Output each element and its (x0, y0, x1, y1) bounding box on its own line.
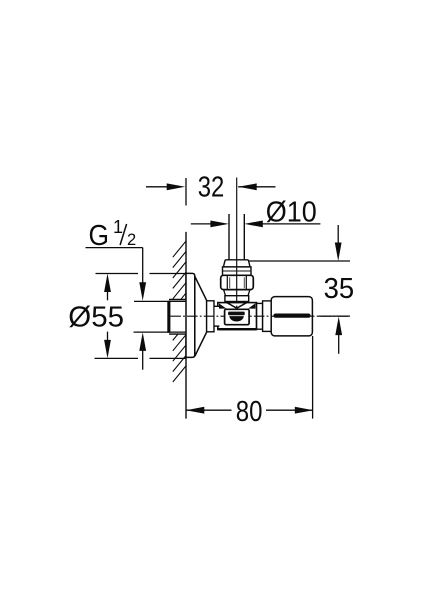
valve body (218, 303, 257, 330)
dim 35: down arrow (337, 225, 339, 244)
funnel V lines (225, 302, 237, 309)
label G 1/2: lower arrow (up) (139, 332, 146, 351)
dim 32: left extension line (185, 178, 187, 206)
dim 80: right extension line (handle edge) (312, 336, 314, 419)
compression nut (221, 275, 254, 289)
svg-text:Ø55: Ø55 (68, 302, 124, 334)
escutcheon cone (195, 276, 207, 356)
GROHE badge (225, 309, 250, 324)
vertical pipe centerline (236, 178, 238, 304)
label G 1/2: upper extension (thread crest line) (134, 300, 186, 302)
dim 35: bottom extension line (319, 315, 351, 317)
svg-text:Ø10: Ø10 (266, 196, 317, 228)
dim O55: bottom arrow (pointing down) (107, 332, 109, 341)
dim O55: top extension line (96, 273, 139, 275)
funnel corner wedge left (219, 303, 226, 308)
label G 1/2: upper arrow (down) (139, 282, 146, 301)
svg-text:32: 32 (198, 171, 225, 203)
svg-text:35: 35 (324, 273, 355, 305)
compression fitting flare (223, 260, 250, 267)
funnel cylinder (225, 296, 249, 302)
svg-text:80: 80 (236, 396, 263, 428)
svg-text:2: 2 (127, 231, 136, 249)
dim 32: left dim line + arrow (146, 186, 174, 188)
taper below nut (224, 290, 226, 296)
handle grip bar (273, 314, 310, 318)
threaded inlet G1/2 (167, 300, 186, 335)
dim 80: dim line + arrows (187, 409, 232, 411)
escutcheon flange plate (O55) (186, 273, 195, 357)
handle knob (271, 297, 312, 336)
dim 32: right dim line + arrow (238, 186, 275, 188)
dim 35: up arrow (335, 317, 342, 336)
handle stem (257, 303, 263, 329)
wall hatching (173, 241, 187, 382)
svg-text:1: 1 (113, 217, 123, 237)
dim O55: top arrow (pointing up) (104, 274, 111, 293)
dim 35: top extension line (249, 260, 351, 262)
escutcheon ring (207, 301, 214, 332)
escutcheon neck (215, 306, 221, 327)
funnel corner wedge right (248, 303, 255, 308)
dim O10: dim line + arrows (191, 223, 217, 225)
horizontal centerline (170, 315, 349, 317)
compression fitting band (223, 267, 252, 275)
inlet pipe (228, 214, 230, 260)
wall face line (also 80-dim left extension) (185, 232, 187, 419)
dim O55: bottom extension line (95, 357, 139, 359)
label G 1/2: leader line (86, 247, 143, 249)
label G 1/2: lower extension (thread crest line) (134, 331, 187, 333)
